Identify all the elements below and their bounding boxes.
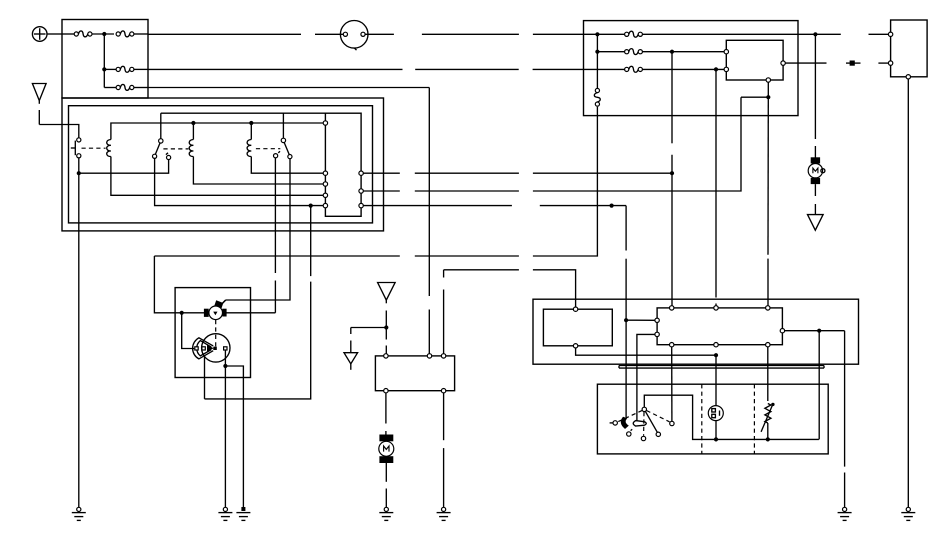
- battery positive terminal: [32, 27, 47, 42]
- rotary contact c2: [627, 429, 633, 436]
- wire node to breaker: [182, 313, 195, 349]
- distributor rotor circle: [202, 334, 230, 362]
- wire motor M3 feed: [814, 34, 816, 139]
- pin CU-B1: [670, 343, 674, 347]
- SECTION: top middle rows: [148, 21, 741, 356]
- ground G3: [236, 507, 250, 520]
- wire K1 common ground run: [78, 173, 80, 507]
- wire CU-L2 left drop: [637, 334, 655, 421]
- wiper motor M1: [379, 435, 394, 464]
- wire row2: [533, 68, 584, 70]
- rotary contact c4: [656, 432, 660, 436]
- flasher component: [708, 406, 723, 421]
- fuse F1: [74, 31, 92, 37]
- wire: [814, 204, 816, 215]
- wire v626 mid: [625, 259, 627, 321]
- wire: [134, 87, 148, 89]
- wire coil right: [226, 312, 275, 314]
- node fuse bus mid: [102, 67, 106, 71]
- wire v626 into switch: [625, 320, 627, 417]
- node row51: [670, 50, 674, 54]
- ignition coil T: [204, 300, 227, 319]
- contact K1: [71, 138, 81, 158]
- fuse F7: [625, 66, 643, 72]
- rotary lever: [645, 411, 657, 432]
- ground G4: [379, 507, 393, 520]
- rotor contact: [213, 347, 217, 350]
- blower switch box: [597, 384, 828, 454]
- dashed shaft: [215, 320, 217, 347]
- wire K2 bottom: [767, 82, 769, 97]
- pin CU-L2: [655, 332, 659, 336]
- wire v672 lower: [671, 155, 673, 306]
- fuse F2: [116, 31, 134, 37]
- pin W4: [384, 389, 388, 393]
- node v672 line173: [670, 171, 674, 175]
- wire line173: [415, 172, 519, 174]
- dashed ray to c3: [643, 412, 645, 436]
- coil L2: [189, 123, 193, 157]
- wire: [104, 68, 116, 70]
- wire triangle to relay contact: [39, 125, 79, 138]
- wire row1: [533, 33, 584, 35]
- top rail: [111, 123, 326, 140]
- pin W3: [441, 354, 445, 358]
- wire row3 to corner: [148, 87, 429, 89]
- switch common frame: [644, 395, 819, 439]
- pin X1-R2: [359, 189, 363, 193]
- node line206: [610, 204, 614, 208]
- wire row1: [148, 33, 301, 35]
- wire: [814, 184, 816, 196]
- wire: [62, 33, 74, 35]
- wire breaker down: [204, 357, 206, 399]
- SECTION: distributor: [154, 158, 310, 507]
- pin X1-3: [323, 182, 327, 186]
- node dist feed: [180, 311, 184, 315]
- wire coil top right: [222, 300, 225, 303]
- pin X1-R1: [359, 171, 363, 175]
- wire line191 to corner: [533, 97, 741, 191]
- wire switch C left leg upper: [274, 158, 276, 273]
- wire node to pin: [385, 328, 387, 356]
- SECTION: right column: [798, 20, 927, 507]
- SECTION: top-left battery and fusebox: [32, 20, 148, 138]
- pin K2-3: [781, 61, 785, 65]
- pin CU-T3: [766, 306, 770, 310]
- dashed link C: [256, 148, 280, 150]
- SECTION: left relay box: [62, 98, 384, 231]
- wire W257: [154, 255, 399, 257]
- wire: [92, 33, 114, 35]
- fuse F8 vertical: [594, 88, 600, 106]
- rotary contact c1: [610, 421, 618, 425]
- resistor module box: [543, 309, 612, 346]
- wire upper link: [161, 112, 326, 114]
- rotary switch pivot: [642, 407, 646, 411]
- pin CU-R1: [780, 329, 784, 333]
- wire M1 down: [385, 463, 387, 482]
- wire W257 to fuse column: [533, 107, 598, 256]
- wire diag to coil top: [222, 300, 226, 304]
- wire coil L2 to pin: [193, 157, 323, 185]
- wiper blade 2: [633, 421, 646, 426]
- wire ground run v844: [844, 331, 846, 467]
- wire row1: [315, 33, 344, 35]
- pin CU-T2: [714, 306, 718, 310]
- SECTION: wiper: [344, 283, 455, 508]
- wire fuse column: [596, 34, 598, 88]
- wire line173: [533, 172, 672, 174]
- SECTION: grounds: [72, 173, 916, 520]
- connector triangle left: [32, 84, 46, 125]
- wire row1: [365, 33, 394, 35]
- node row69: [714, 67, 718, 71]
- wire v429: [428, 88, 430, 297]
- pin X1-2: [323, 171, 327, 175]
- wire v672 upper: [671, 52, 673, 144]
- node: [595, 50, 599, 54]
- wire W257: [415, 255, 519, 257]
- pin CU-T1: [670, 306, 674, 310]
- node CU-R1: [817, 329, 821, 333]
- wire v443: [443, 290, 445, 356]
- wire v672 to switch contact: [671, 347, 673, 421]
- SECTION: top right fusebox: [584, 21, 827, 116]
- wire line191: [363, 190, 400, 192]
- pin RM-2: [573, 344, 577, 348]
- heater assembly outer box: [533, 299, 859, 364]
- wire W257 drop: [154, 256, 204, 313]
- node bus v716: [714, 353, 718, 357]
- pin W2: [427, 354, 431, 358]
- wire: [814, 146, 816, 158]
- breaker contact 1: [195, 347, 198, 350]
- wire W4 down: [385, 393, 387, 435]
- wire switch C up: [282, 113, 284, 138]
- wire v626 upper: [625, 206, 627, 251]
- node rail L2: [191, 121, 195, 125]
- wire contact K1 down: [78, 158, 80, 173]
- wire row69 right: [642, 68, 726, 70]
- wire switch C left leg lower: [274, 281, 276, 313]
- wiper control unit box: [375, 356, 454, 391]
- wire bus down: [103, 34, 105, 88]
- wire v716: [715, 69, 717, 297]
- switch C: [274, 138, 293, 159]
- wire condenser branch: [225, 366, 243, 507]
- node B5: [309, 204, 313, 208]
- wire node A to switch B: [79, 160, 169, 174]
- wire W5 down lower: [443, 448, 445, 507]
- wire row63: [785, 62, 826, 64]
- wiper blade 1: [621, 417, 628, 428]
- node condenser: [223, 364, 227, 368]
- fuse F3: [116, 66, 134, 72]
- ground G7: [901, 507, 915, 520]
- wire switch C right leg: [226, 159, 290, 300]
- inline connector mark: [846, 61, 861, 66]
- rotary contact c5: [670, 421, 674, 425]
- fuse F6: [625, 49, 643, 55]
- dashed ray to c5: [647, 411, 670, 422]
- pin X2-1: [888, 32, 892, 36]
- wire v768 upper: [767, 97, 769, 255]
- wire to line191 corner: [741, 96, 768, 98]
- node bus b2: [766, 437, 770, 441]
- wire row51: [597, 51, 624, 53]
- pin W1: [384, 354, 388, 358]
- relay module inner box: [69, 106, 373, 223]
- pin W5: [441, 389, 445, 393]
- wire switch B left down: [155, 158, 324, 205]
- wire row1 inside right: [642, 33, 798, 35]
- pin CU-B3: [766, 343, 770, 347]
- dashed ray to c1: [618, 410, 642, 421]
- distributor box: [175, 288, 250, 378]
- node bus b1: [714, 437, 718, 441]
- wire condenser down: [224, 350, 226, 507]
- node fuse bus top: [102, 32, 106, 36]
- wire v716 to flasher: [715, 355, 717, 406]
- cap contact right: [224, 347, 227, 350]
- node row1 out: [813, 32, 817, 36]
- wire line206: [363, 205, 512, 207]
- wire v443 upper: [443, 270, 445, 278]
- wire: [134, 33, 148, 35]
- breaker contact 2: [202, 347, 205, 350]
- fuse F5: [625, 31, 643, 37]
- fuse box 2: [584, 21, 799, 116]
- wire switch B up: [160, 113, 162, 139]
- relay module outer box: [62, 98, 384, 231]
- wire coil L1 to pin: [111, 157, 323, 196]
- node row1: [595, 32, 599, 36]
- pin X2-3: [906, 75, 910, 79]
- ground G5: [437, 507, 451, 520]
- wire W5 down: [443, 393, 445, 440]
- wire CU-R1 to ground run: [785, 330, 845, 332]
- node K2 bottom: [766, 95, 770, 99]
- pin CU-B2: [714, 343, 718, 347]
- wire v819: [818, 331, 820, 440]
- ground G2: [218, 507, 232, 520]
- switch B: [153, 139, 171, 160]
- harness bar: [619, 366, 824, 369]
- partition dashed 2: [753, 384, 755, 454]
- wire v716 lower: [715, 304, 717, 306]
- wire M1 down lower: [385, 489, 387, 508]
- motor M3: [808, 157, 825, 184]
- connector triangle small: [344, 353, 358, 370]
- pin K2-1: [724, 50, 728, 54]
- wire coil L3 to pin: [251, 157, 323, 174]
- pin X2-2: [888, 61, 892, 65]
- breaker cam horn: [193, 338, 214, 359]
- partition dashed 1: [701, 384, 703, 454]
- wire v429 lower: [428, 310, 430, 356]
- pin CU-L1: [655, 318, 659, 322]
- pin X1-R3: [359, 203, 363, 207]
- wire row2: [148, 68, 403, 70]
- relay K2 box: [726, 40, 783, 80]
- fuse F4: [116, 84, 134, 90]
- node T2: [384, 325, 388, 329]
- pin X1-4: [323, 193, 327, 197]
- wire row63 right: [878, 62, 888, 64]
- pin K2-2: [724, 67, 728, 71]
- connector X1: [325, 113, 361, 216]
- ground G1: [72, 507, 86, 520]
- node rail L3: [249, 121, 253, 125]
- connector X2 box: [891, 20, 928, 77]
- wire line206: [540, 205, 626, 207]
- wire battery to fusebox: [47, 33, 62, 35]
- wire v768 lower: [767, 259, 769, 306]
- fuse box F: [62, 20, 148, 99]
- wire ground run v844 lower: [844, 473, 846, 508]
- wire v310 lower: [205, 282, 311, 399]
- lamp B1: [340, 21, 368, 51]
- dashed drop from triangle: [385, 300, 387, 327]
- wire row1 out: [798, 33, 841, 35]
- wire row1 inside: [584, 33, 625, 35]
- wire: [134, 68, 148, 70]
- wire v768 to thermistor: [767, 347, 769, 401]
- wire v310 upper: [310, 206, 312, 277]
- wire: [104, 87, 116, 89]
- wire row51 right: [642, 51, 726, 53]
- thermistor R1: [761, 403, 775, 440]
- node A: [77, 171, 81, 175]
- dashed link K1: [82, 147, 106, 149]
- wire row2: [415, 68, 519, 70]
- wire v626 to CU-L1: [626, 319, 655, 321]
- wire line173: [363, 172, 400, 174]
- rotary contact c3: [641, 436, 645, 440]
- continuation arrow down: [808, 215, 824, 231]
- dashed link B: [163, 148, 188, 150]
- wire RM bottom to bus: [576, 348, 716, 355]
- wire stub to small triangle: [351, 328, 387, 353]
- wire row69 inside: [584, 68, 625, 70]
- SECTION: middle lines: [670, 52, 768, 306]
- wire row1 out right: [869, 33, 889, 35]
- control unit wide box: [657, 308, 782, 345]
- pin X1-1: [323, 121, 327, 125]
- pin RM-1: [573, 307, 577, 311]
- wire X2 ground run: [907, 79, 909, 507]
- coil L1: [107, 140, 111, 157]
- wire W270: [444, 269, 519, 271]
- node v626: [624, 318, 628, 322]
- SECTION: bottom right assembly: [533, 299, 859, 507]
- pin K2-4: [766, 78, 770, 82]
- pin X1-5: [323, 203, 327, 207]
- wire flasher to bus: [715, 421, 717, 440]
- wire line191: [415, 190, 519, 192]
- coil L3: [247, 123, 251, 157]
- wire row1: [422, 33, 519, 35]
- connector triangle mid: [378, 283, 396, 301]
- wire W270: [533, 270, 576, 307]
- ground G6: [838, 507, 852, 520]
